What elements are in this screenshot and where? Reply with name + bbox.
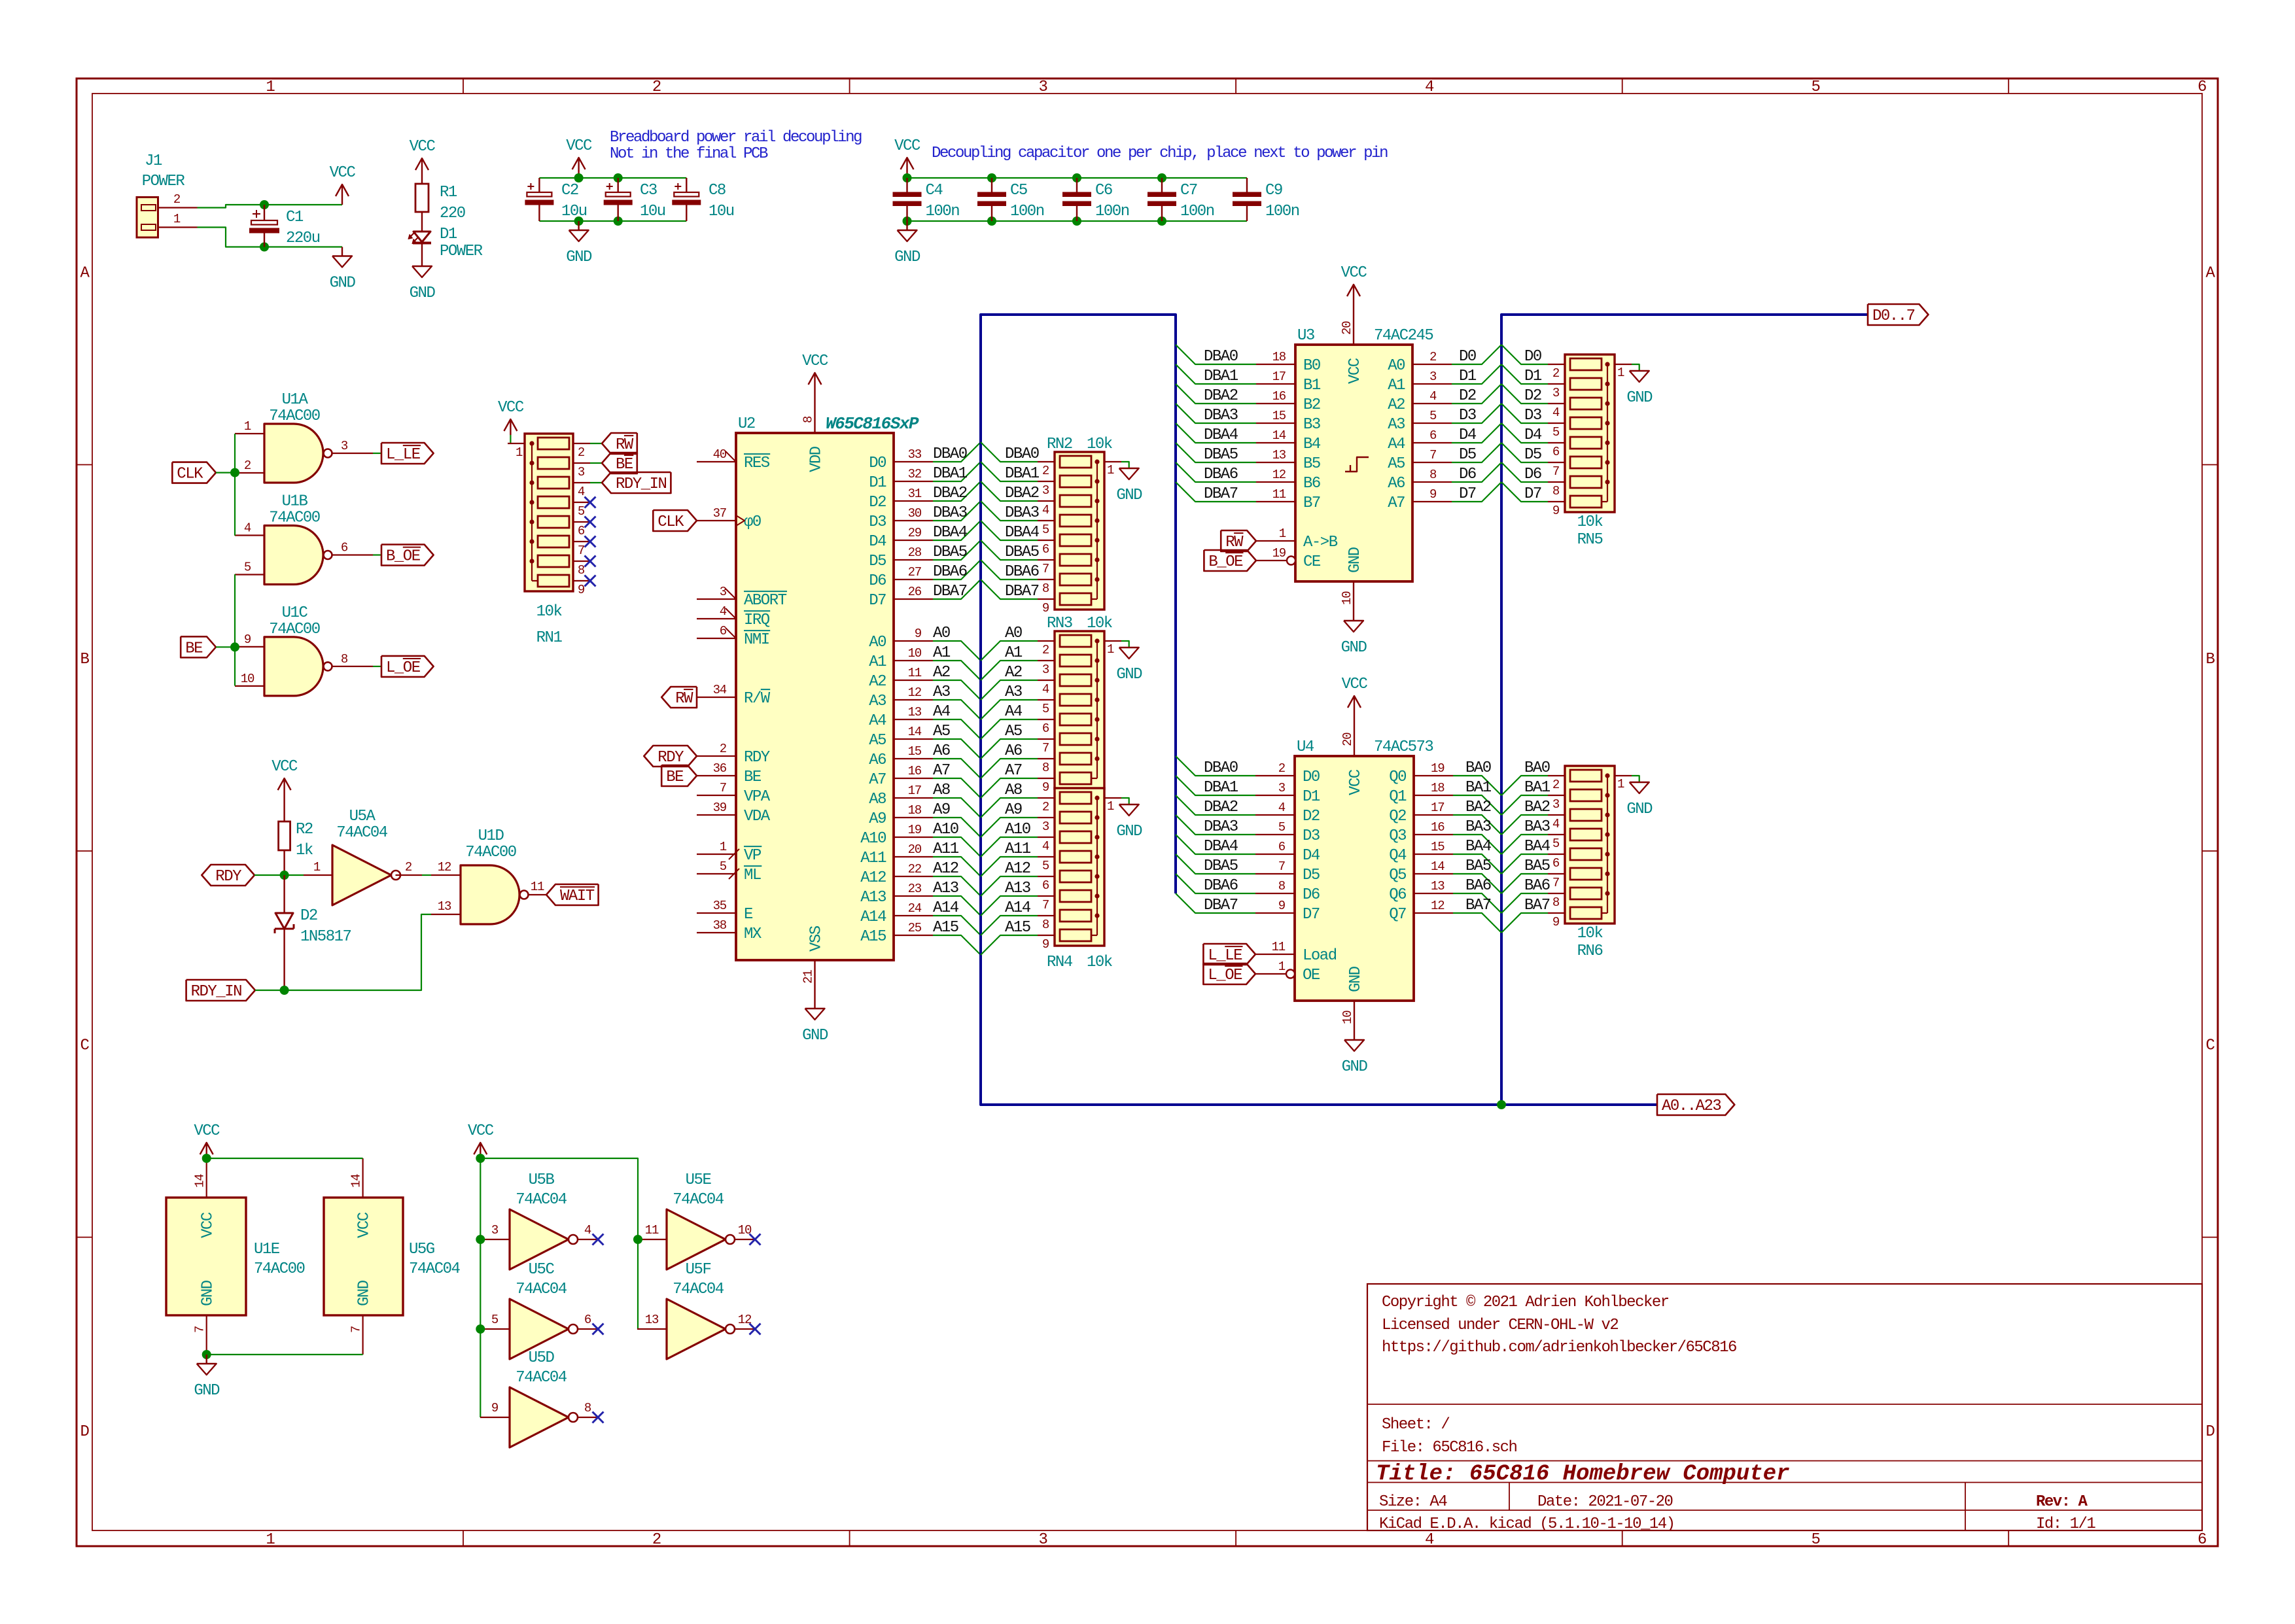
NAND gate U1B 74AC00 (264, 493, 332, 585)
wire DBA0 from bus to U4 (1176, 756, 1255, 777)
bus junction dot bottom (1497, 1100, 1506, 1109)
RN4 pin 3 wire A9 (981, 801, 1055, 837)
U2 pin 18 A9 (869, 803, 933, 828)
diode D2 1N5817 schottky (275, 875, 351, 990)
svg-text:RW: RW (1225, 534, 1244, 551)
svg-text:WAIT: WAIT (560, 888, 595, 905)
svg-text:39: 39 (713, 801, 727, 815)
wire D5 to bus + net label DBA5 (933, 540, 981, 561)
NAND gate U1C 74AC00 (264, 604, 332, 696)
U4 pin 1 OE (1255, 959, 1320, 984)
resistor network RN2 10k (1047, 436, 1113, 610)
svg-text:A0: A0 (869, 634, 886, 651)
svg-text:6: 6 (720, 624, 727, 638)
svg-text:DBA7: DBA7 (933, 583, 967, 600)
svg-text:2: 2 (173, 192, 181, 207)
inverter U5B 74AC04 (510, 1171, 578, 1270)
svg-text:E: E (744, 906, 753, 924)
svg-text:DBA0: DBA0 (1204, 759, 1238, 777)
NAND gate U1D 74AC00 (461, 827, 529, 924)
svg-text:D0: D0 (1459, 348, 1476, 366)
wire DBA6 from bus to U3 (1176, 462, 1256, 483)
U2 pin 39 VDA (697, 801, 771, 825)
svg-text:1: 1 (266, 1531, 275, 1549)
svg-text:RDY: RDY (215, 868, 241, 886)
wire J1 pin2 to VCC rail (198, 205, 343, 208)
svg-text:4: 4 (244, 521, 251, 536)
wire BA1 bus to RN6 (1501, 779, 1550, 815)
svg-text:U1E: U1E (254, 1241, 280, 1258)
svg-text:VPA: VPA (744, 788, 771, 806)
wire D2 to bus + net label DBA2 (933, 481, 981, 502)
svg-text:GND: GND (410, 285, 436, 302)
U3 pin 9 A7 (1388, 487, 1452, 512)
RN3 pin1 to GND (1104, 641, 1142, 683)
svg-text:GND: GND (1347, 966, 1365, 992)
svg-text:A0: A0 (1388, 357, 1405, 375)
svg-text:3: 3 (1278, 781, 1286, 795)
svg-text:9: 9 (1429, 487, 1437, 502)
svg-text:A0: A0 (933, 625, 950, 642)
svg-text:Q3: Q3 (1389, 827, 1406, 845)
svg-text:DBA0: DBA0 (933, 445, 967, 463)
RN5 pin 7 (1548, 462, 1565, 479)
svg-text:4: 4 (578, 485, 585, 499)
wire BA7 U4 to bus (1453, 897, 1501, 933)
svg-text:20: 20 (1340, 733, 1355, 746)
svg-text:A1: A1 (1388, 377, 1405, 394)
U3 pin 7 A5 (1388, 448, 1452, 473)
svg-text:4: 4 (1552, 406, 1560, 420)
svg-text:74AC04: 74AC04 (336, 824, 388, 842)
RN3 pin 7 wire A5 (981, 723, 1055, 759)
wire U1C output to label (373, 666, 381, 667)
svg-text:2: 2 (1552, 778, 1560, 792)
svg-text:U5E: U5E (686, 1171, 712, 1189)
U3 pin 19 CE (1256, 546, 1321, 571)
svg-text:B7: B7 (1303, 494, 1320, 512)
wire D2 U3 to bus (1452, 384, 1501, 405)
wire DBA2 from bus to U4 (1176, 795, 1255, 816)
svg-text:6: 6 (1278, 840, 1286, 854)
global label BE at U2 (661, 765, 697, 786)
svg-text:DBA5: DBA5 (1005, 544, 1039, 561)
bus label D0..7 (1868, 304, 1929, 325)
svg-text:D1: D1 (869, 474, 886, 492)
svg-text:A5: A5 (869, 732, 886, 750)
svg-text:23: 23 (908, 882, 922, 896)
svg-text:A12: A12 (1005, 860, 1030, 878)
svg-text:C5: C5 (1010, 182, 1027, 199)
svg-text:100n: 100n (1265, 203, 1299, 220)
svg-text:A2: A2 (1005, 664, 1022, 682)
wire BA1 U4 to bus (1453, 779, 1501, 815)
svg-text:5: 5 (1552, 425, 1560, 440)
svg-text:A9: A9 (869, 810, 886, 828)
svg-text:Load: Load (1303, 947, 1337, 965)
svg-text:9: 9 (244, 632, 251, 647)
svg-text:220u: 220u (286, 230, 320, 247)
svg-text:RDY_IN: RDY_IN (191, 983, 242, 1001)
svg-text:6: 6 (578, 524, 585, 538)
wire BA5 bus to RN6 (1501, 857, 1550, 893)
U3 pin 1 A->B (1256, 527, 1338, 551)
svg-text:16: 16 (1431, 820, 1445, 835)
NAND gate U1A 74AC00 (264, 391, 332, 483)
svg-text:BE: BE (185, 640, 203, 657)
svg-text:A7: A7 (1388, 494, 1405, 512)
global label L_OE at U4 (1203, 963, 1255, 984)
svg-text:VCC: VCC (410, 138, 436, 156)
svg-text:10u: 10u (709, 203, 734, 220)
wire U5G pin7 to GND (207, 1354, 363, 1355)
junction dots C4-C7 rails (903, 173, 1167, 226)
U2 pin 29 D4 (869, 526, 933, 551)
svg-text:GND: GND (1626, 801, 1653, 818)
svg-text:9: 9 (1278, 899, 1286, 913)
RN5 pin 9 (1548, 502, 1565, 518)
U2 VDD pin 8 (801, 353, 828, 472)
svg-text:D6: D6 (1459, 466, 1476, 483)
svg-text:12: 12 (1272, 468, 1286, 482)
svg-text:RW: RW (675, 690, 693, 708)
RN2 pin 8 wire DBA6 (981, 560, 1055, 596)
svg-text:A1: A1 (869, 653, 886, 671)
svg-text:MX: MX (744, 925, 762, 943)
svg-text:A2: A2 (869, 673, 886, 691)
U5D output pin 8 no-connect (578, 1401, 604, 1423)
U2 pin 16 A7 (869, 764, 933, 789)
svg-text:D2: D2 (869, 494, 886, 511)
svg-text:A1: A1 (933, 644, 951, 662)
U4 pin 11 Load (1255, 940, 1337, 965)
svg-text:A4: A4 (1005, 703, 1023, 721)
svg-text:6: 6 (2198, 1531, 2206, 1549)
svg-text:NMI: NMI (744, 631, 769, 649)
wire DBA7 from bus to U3 (1176, 482, 1256, 503)
svg-text:RW: RW (616, 436, 634, 454)
U4 pin 4 D2 (1255, 801, 1320, 825)
RN1 pin 6 no-connect (573, 517, 596, 539)
svg-text:DBA4: DBA4 (1204, 838, 1238, 855)
U2 pin 25 A15 (860, 921, 933, 946)
U4 pin 5 D3 (1255, 820, 1320, 845)
svg-text:D7: D7 (869, 592, 886, 610)
RN2 pin 7 wire DBA5 (981, 540, 1055, 576)
svg-text:20: 20 (1340, 321, 1354, 335)
RN5 pin 4 (1548, 404, 1565, 420)
U1D output pin 11 (529, 880, 547, 895)
resistor network RN4 10k (1047, 788, 1113, 971)
svg-text:B_OE: B_OE (1208, 553, 1243, 571)
RN1 pin 1 VCC (498, 399, 525, 460)
svg-text:U4: U4 (1297, 738, 1314, 756)
RN3 pin 2 wire A0 (981, 625, 1055, 661)
U4 pin 7 D5 (1255, 859, 1320, 884)
capacitor C7 100n (1147, 178, 1214, 221)
svg-text:1: 1 (1617, 777, 1624, 791)
svg-text:CE: CE (1303, 553, 1321, 571)
svg-text:15: 15 (1431, 840, 1445, 854)
svg-text:10k: 10k (1087, 954, 1113, 971)
global label CLK at U1A (172, 462, 216, 483)
svg-text:3: 3 (578, 465, 585, 479)
wire BA3 U4 to bus (1453, 818, 1501, 854)
svg-text:B: B (2206, 651, 2215, 668)
svg-text:GND: GND (894, 249, 920, 266)
svg-text:18: 18 (1431, 781, 1445, 795)
RN2 pin 3 wire DBA1 (981, 462, 1055, 498)
wire D7 bus to RN5 (1501, 482, 1548, 503)
svg-text:100n: 100n (1180, 203, 1214, 220)
svg-text:3: 3 (1038, 78, 1047, 96)
svg-text:VCC: VCC (468, 1122, 494, 1140)
svg-text:10k: 10k (536, 603, 563, 621)
svg-text:BA4: BA4 (1465, 838, 1492, 855)
U1D pin 12 (431, 860, 461, 875)
svg-text:DBA5: DBA5 (1204, 446, 1238, 464)
svg-text:6: 6 (1042, 542, 1049, 557)
svg-text:10: 10 (241, 672, 254, 686)
wire DBA6 from bus to U4 (1176, 874, 1255, 895)
svg-text:A6: A6 (1005, 742, 1022, 760)
svg-text:D5: D5 (869, 553, 886, 570)
U2 pin 14 A5 (869, 725, 933, 750)
wire DBA4 from bus to U4 (1176, 835, 1255, 855)
RN5 pin 2 (1548, 364, 1565, 381)
U1E pin 14 (193, 1158, 207, 1198)
svg-text:Q2: Q2 (1389, 808, 1406, 825)
U2 pin 31 D2 (869, 487, 933, 511)
wire VCC to U5G pin14 (207, 1158, 363, 1159)
svg-text:DBA1: DBA1 (1005, 465, 1040, 483)
svg-text:9: 9 (1042, 780, 1049, 795)
svg-text:C8: C8 (709, 182, 726, 199)
svg-text:U2: U2 (738, 415, 755, 433)
svg-text:CLK: CLK (657, 513, 684, 531)
wire A9 to bus + net label A9 (933, 801, 981, 837)
svg-text:A15: A15 (933, 919, 958, 937)
svg-text:13: 13 (1431, 879, 1445, 893)
svg-text:A7: A7 (933, 762, 950, 780)
svg-text:2: 2 (652, 78, 661, 96)
svg-text:A7: A7 (1005, 762, 1022, 780)
svg-text:DBA2: DBA2 (933, 485, 967, 502)
svg-text:6: 6 (1042, 878, 1049, 893)
U3 pin 16 B2 (1256, 389, 1320, 414)
svg-text:VDA: VDA (744, 808, 771, 825)
wire VCC rail C4-C9 (907, 177, 1248, 179)
svg-text:B6: B6 (1303, 475, 1320, 492)
U5D input pin 9 (480, 1401, 510, 1417)
svg-text:GND: GND (1346, 547, 1364, 573)
wire GND rail C4-C9 (907, 220, 1248, 222)
wire DBA5 from bus to U3 (1176, 443, 1256, 464)
U2 pin 4 IRQ (697, 604, 770, 629)
U1E pin 7 (193, 1315, 207, 1355)
wire CLK to U1A (216, 472, 235, 473)
svg-text:3: 3 (1552, 797, 1560, 812)
svg-text:6: 6 (1429, 428, 1437, 443)
svg-text:5: 5 (1042, 702, 1049, 716)
svg-text:D0: D0 (1303, 769, 1320, 786)
svg-text:L_OE: L_OE (1208, 967, 1242, 984)
svg-text:Size: A4: Size: A4 (1379, 1493, 1447, 1511)
U4 pin 14 Q5 (1389, 859, 1453, 884)
svg-text:1: 1 (244, 419, 251, 434)
svg-text:A14: A14 (1005, 899, 1031, 917)
svg-text:BA2: BA2 (1524, 799, 1550, 816)
RN6 pin 5 (1548, 835, 1565, 851)
svg-text:Id: 1/1: Id: 1/1 (2036, 1515, 2095, 1533)
svg-text:Q1: Q1 (1389, 788, 1407, 806)
svg-text:A4: A4 (869, 712, 886, 730)
svg-text:32: 32 (908, 467, 922, 481)
svg-text:38: 38 (713, 918, 727, 933)
resistor network RN6 10k (1565, 766, 1615, 960)
svg-text:1: 1 (313, 860, 321, 874)
U4 pin 3 D1 (1255, 781, 1320, 806)
global label B_OE at U3 (1204, 550, 1256, 571)
capacitor C6 100n (1062, 178, 1129, 221)
svg-text:5: 5 (1552, 837, 1560, 851)
svg-text:Copyright © 2021 Adrien Kohlbe: Copyright © 2021 Adrien Kohlbecker (1382, 1294, 1669, 1311)
svg-text:D0: D0 (869, 455, 886, 472)
U5C output pin 6 no-connect (578, 1313, 604, 1335)
title block (1367, 1284, 2202, 1533)
junction VCC U5B col (476, 1154, 485, 1163)
RN1 pin 9 no-connect (573, 576, 596, 598)
U2 pin 19 A10 (860, 823, 933, 848)
RN1 pin 3 wire (573, 463, 590, 479)
svg-text:Decoupling capacitor one per c: Decoupling capacitor one per chip, place… (932, 145, 1388, 162)
svg-text:10: 10 (1340, 591, 1354, 605)
svg-text:GND: GND (1341, 639, 1367, 657)
svg-text:1: 1 (1107, 463, 1114, 477)
svg-text:A12: A12 (933, 860, 958, 878)
note decoupling capacitor per chip (932, 145, 1388, 162)
svg-text:U5A: U5A (349, 808, 376, 825)
U2 pin 30 D3 (869, 506, 933, 531)
U1D pin 13 (431, 899, 461, 914)
svg-text:BA0: BA0 (1465, 759, 1491, 777)
wire DBA0 from bus to U3 (1176, 345, 1256, 366)
svg-text:1: 1 (1107, 799, 1114, 814)
svg-text:W65C816SxP: W65C816SxP (826, 414, 919, 434)
svg-text:30: 30 (908, 506, 922, 521)
svg-text:BA6: BA6 (1465, 877, 1491, 895)
svg-text:A7: A7 (869, 771, 886, 789)
svg-text:Date: 2021-07-20: Date: 2021-07-20 (1537, 1493, 1673, 1511)
wire DBA1 from bus to U3 (1176, 364, 1256, 385)
svg-text:A1: A1 (1005, 644, 1023, 662)
RN4 pin 7 wire A13 (981, 880, 1055, 916)
U5F output pin 12 no-connect (735, 1313, 761, 1335)
svg-text:10u: 10u (640, 203, 665, 220)
svg-text:36: 36 (713, 761, 727, 776)
inverter U5D 74AC04 (510, 1349, 578, 1447)
RN2 pin 9 wire DBA7 (981, 579, 1055, 615)
svg-text:Q7: Q7 (1389, 906, 1406, 924)
svg-text:7: 7 (720, 781, 726, 795)
RN5 pin 8 (1548, 482, 1565, 498)
svg-text:RN1: RN1 (536, 629, 563, 647)
wire A13 to bus + net label A13 (933, 880, 981, 916)
U2 pin 23 A13 (860, 882, 933, 907)
wire D4 to bus + net label DBA4 (933, 521, 981, 542)
svg-text:12: 12 (438, 860, 451, 874)
svg-text:14: 14 (1272, 428, 1286, 443)
svg-text:DBA7: DBA7 (1005, 583, 1039, 600)
capacitor C8 10u (672, 178, 734, 221)
svg-text:7: 7 (1429, 448, 1436, 462)
svg-text:5: 5 (1812, 1531, 1820, 1549)
svg-text:D7: D7 (1524, 485, 1541, 503)
RN4 pin 5 wire A11 (981, 840, 1055, 876)
svg-text:9: 9 (1552, 504, 1560, 518)
svg-text:D1: D1 (1459, 368, 1477, 385)
U2 pin 32 D1 (869, 467, 933, 492)
svg-text:4: 4 (720, 604, 727, 619)
svg-text:A4: A4 (933, 703, 951, 721)
svg-text:B1: B1 (1303, 377, 1321, 394)
connector J1 POWER (137, 152, 184, 237)
RN4 pin 2 wire A8 (981, 782, 1055, 818)
svg-text:U5G: U5G (409, 1241, 434, 1258)
svg-text:D0: D0 (1524, 348, 1541, 366)
svg-text:40: 40 (713, 447, 727, 462)
RN3 pin 5 wire A3 (981, 683, 1055, 719)
U2 pin 33 D0 (869, 447, 933, 472)
svg-text:C3: C3 (640, 182, 657, 199)
svg-text:A13: A13 (860, 889, 886, 907)
svg-text:33: 33 (908, 447, 922, 462)
resistor network RN1 10k (525, 434, 573, 647)
svg-text:11: 11 (908, 666, 922, 680)
wire DBA2 from bus to U3 (1176, 384, 1256, 405)
wire D7 U3 to bus (1452, 482, 1501, 503)
svg-text:φ0: φ0 (744, 513, 761, 531)
RN4 pin 9 wire A15 (981, 919, 1055, 955)
svg-text:100n: 100n (926, 203, 960, 220)
svg-text:BA5: BA5 (1524, 857, 1550, 875)
global label RW at U3 (1221, 530, 1256, 551)
svg-text:5: 5 (1812, 78, 1820, 96)
svg-text:A14: A14 (933, 899, 959, 917)
global label B_OE (381, 545, 434, 566)
svg-text:RN3: RN3 (1047, 615, 1072, 632)
svg-text:13: 13 (645, 1313, 659, 1327)
svg-text:7: 7 (1042, 562, 1049, 576)
wire A4 to bus + net label A4 (933, 703, 981, 739)
svg-text:A6: A6 (933, 742, 950, 760)
capacitor C1 220u (249, 205, 320, 247)
svg-text:13: 13 (438, 899, 451, 914)
svg-text:8: 8 (1552, 895, 1560, 910)
wire U5A out to U1D pin 12 (422, 874, 431, 876)
svg-text:DBA2: DBA2 (1204, 387, 1238, 405)
svg-text:74AC04: 74AC04 (409, 1260, 461, 1278)
RN1 pin 4 wire (573, 483, 590, 499)
svg-text:A15: A15 (860, 928, 886, 946)
wire A12 to bus + net label A12 (933, 860, 981, 896)
svg-text:A4: A4 (1388, 436, 1405, 453)
U2 pin 17 A8 (869, 784, 933, 808)
wire A0 to bus + net label A0 (933, 625, 981, 661)
svg-text:10u: 10u (561, 203, 587, 220)
svg-text:74AC00: 74AC00 (269, 407, 320, 425)
svg-text:GND: GND (1626, 389, 1653, 407)
